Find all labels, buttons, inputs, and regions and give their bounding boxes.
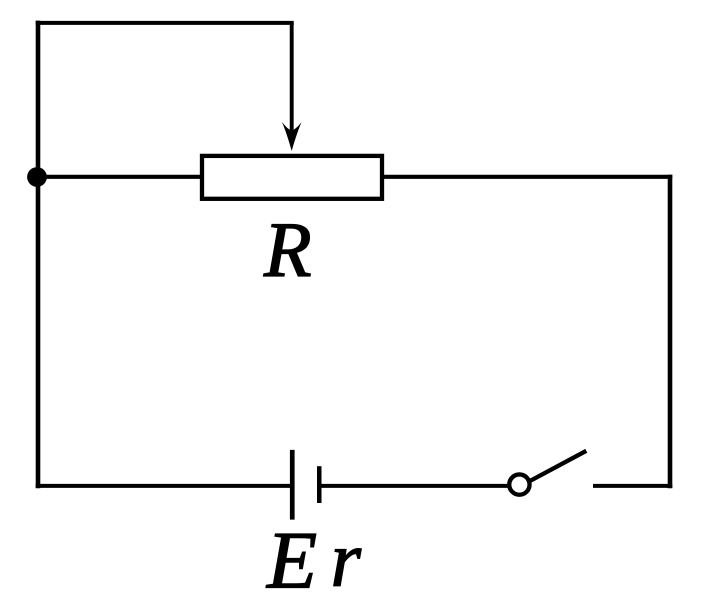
resistor R body — [202, 156, 382, 199]
wire top horizontal — [36, 21, 294, 25]
battery short plate — [317, 466, 322, 503]
wire middle right — [380, 175, 672, 179]
battery long plate — [290, 450, 295, 520]
svg-text:E: E — [266, 515, 317, 603]
wire bottom right — [593, 484, 672, 488]
wiper arrow shaft — [290, 23, 294, 138]
wire left vertical — [36, 21, 41, 489]
wire right vertical — [668, 175, 673, 489]
svg-text:R: R — [263, 206, 312, 293]
wiper arrowhead — [282, 122, 302, 151]
wire switch to battery — [319, 484, 507, 488]
node junction dot — [27, 167, 47, 187]
wire bottom left — [36, 484, 293, 488]
switch S pivot circle — [509, 474, 529, 494]
wire middle left — [36, 175, 204, 179]
svg-text:r: r — [331, 515, 362, 602]
switch S lever — [529, 451, 586, 482]
